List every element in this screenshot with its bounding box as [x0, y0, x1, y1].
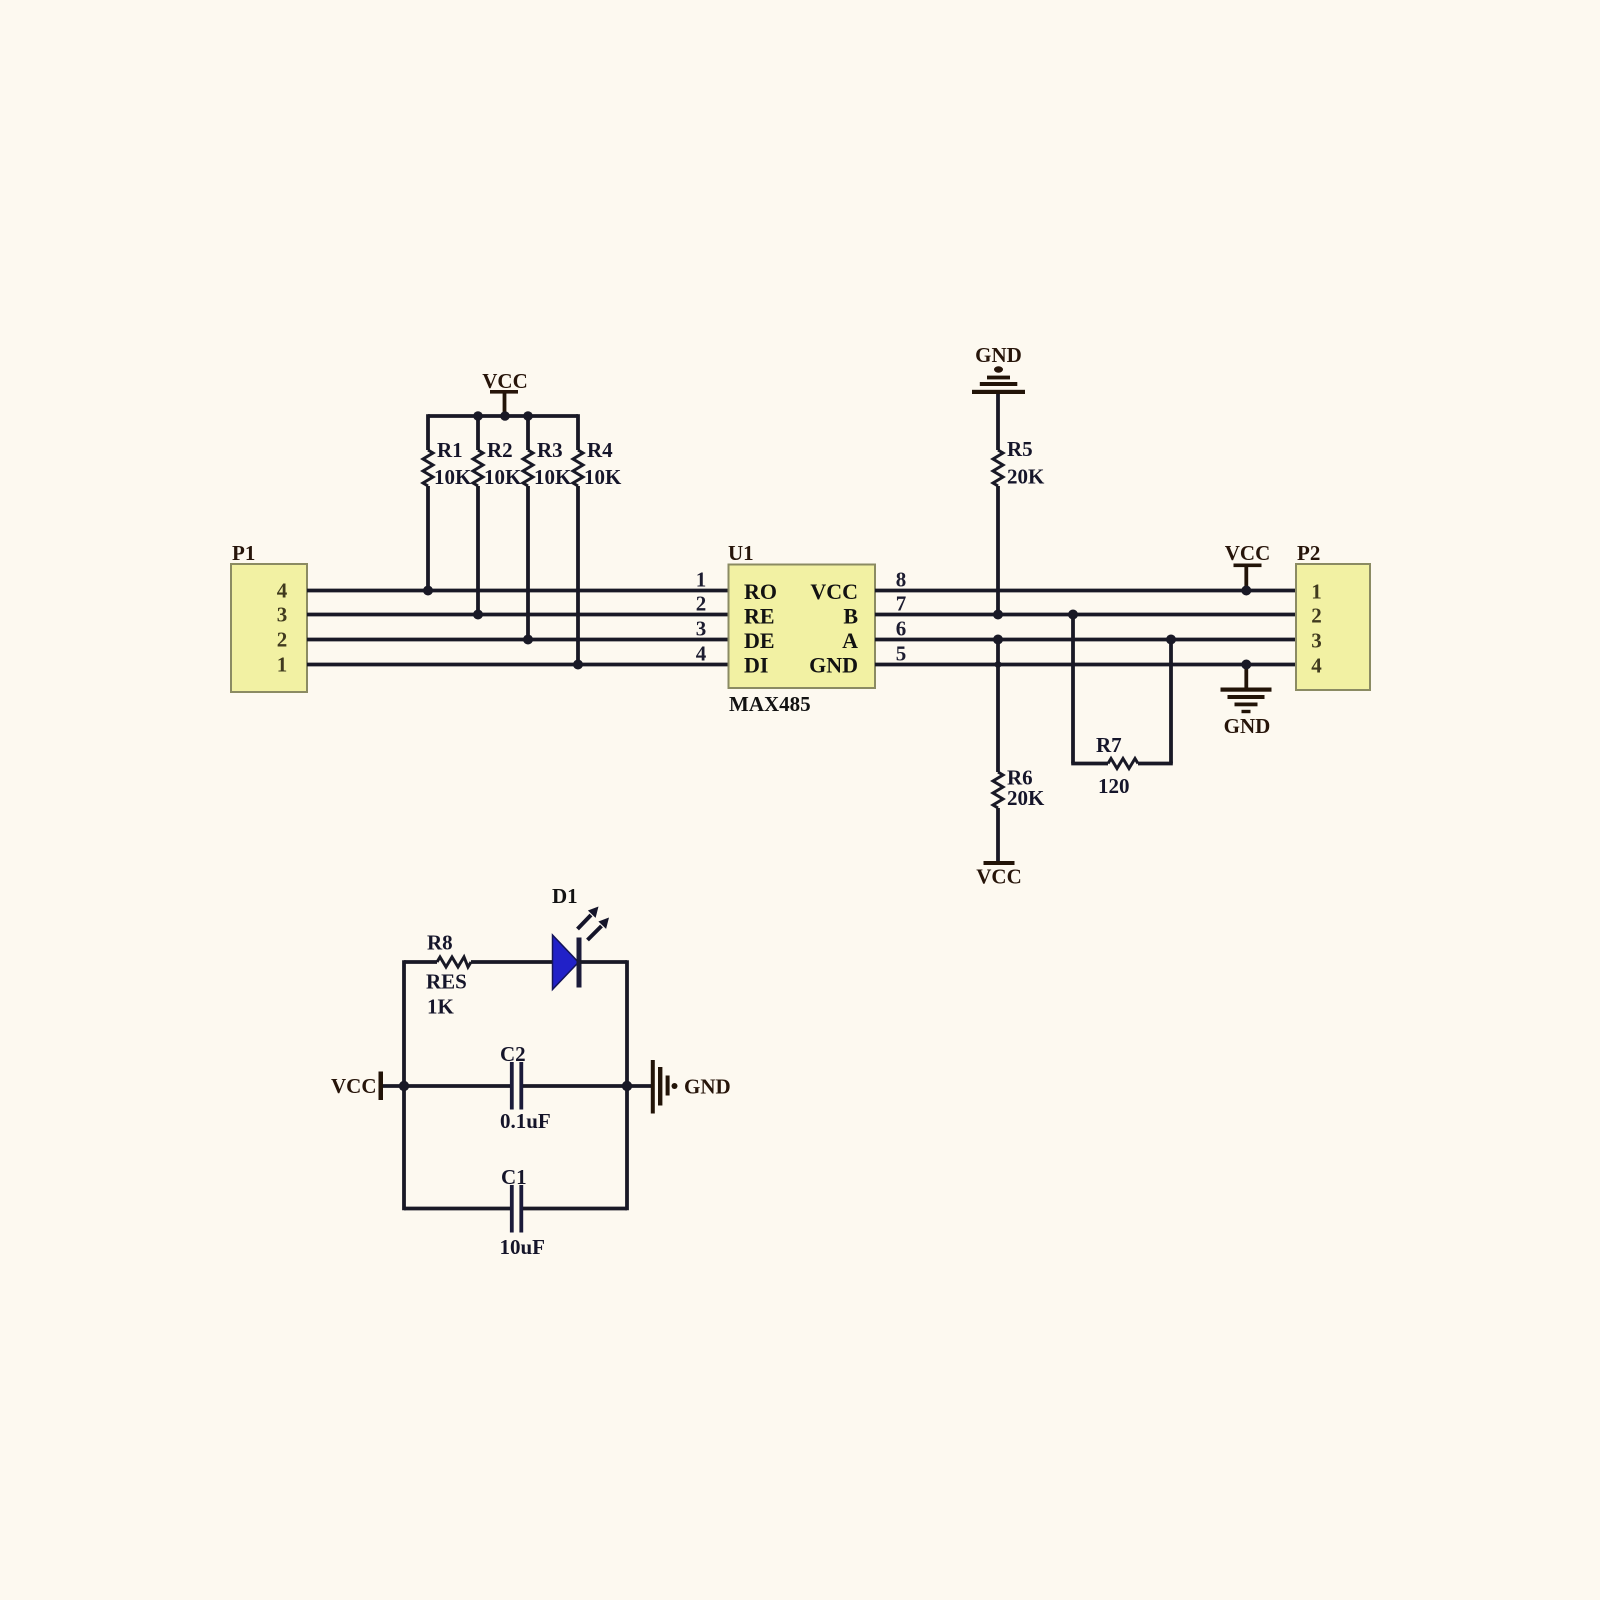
wire top branch left segment — [404, 960, 437, 964]
svg-text:P1: P1 — [232, 541, 255, 565]
resistor R8 RES 1K — [426, 931, 471, 1019]
svg-text:A: A — [842, 628, 858, 653]
wire P1 pin3 to U1 RE — [307, 613, 729, 617]
svg-text:2: 2 — [1311, 604, 1322, 628]
svg-text:R1: R1 — [437, 438, 463, 462]
op-amp / IC U1 MAX485 — [728, 541, 875, 716]
wire U1 GND (pin5) to P2 pin4, net GND — [875, 663, 1296, 667]
svg-text:GND: GND — [975, 343, 1022, 367]
svg-text:RES: RES — [426, 970, 467, 994]
svg-text:R5: R5 — [1007, 437, 1033, 461]
junction dot R5 on net B — [993, 610, 1003, 620]
svg-text:10uF: 10uF — [500, 1235, 546, 1259]
svg-text:10K: 10K — [434, 465, 472, 489]
resistor R6 20K (A net down to VCC) — [993, 640, 1045, 862]
svg-text:GND: GND — [1224, 714, 1271, 738]
svg-text:1: 1 — [1311, 580, 1322, 604]
wire right rail (bottom block) — [625, 960, 629, 1210]
svg-text:2: 2 — [696, 592, 707, 616]
svg-text:DE: DE — [744, 628, 775, 653]
svg-text:120: 120 — [1098, 774, 1130, 798]
svg-text:U1: U1 — [728, 541, 754, 565]
ground symbol GND (right of C2) — [653, 1060, 731, 1114]
junction dot GND stub on net GND — [1241, 660, 1251, 670]
junction dot VCC rail at R3 — [523, 411, 533, 421]
junction dot R2 on pin3 wire — [473, 610, 483, 620]
svg-text:3: 3 — [277, 603, 288, 627]
LED D1 — [552, 884, 609, 990]
junction dot R6 line crossing net GND — [995, 661, 1002, 668]
wire top branch right segment — [580, 960, 627, 964]
svg-text:DI: DI — [744, 653, 768, 678]
svg-text:4: 4 — [1311, 654, 1322, 678]
svg-text:RO: RO — [744, 579, 777, 604]
svg-text:D1: D1 — [552, 884, 578, 908]
svg-text:4: 4 — [277, 579, 288, 603]
power symbol VCC (left of C2) — [331, 1072, 383, 1101]
svg-text:2: 2 — [277, 628, 288, 652]
wire middle branch left segment — [383, 1084, 510, 1088]
svg-text:10K: 10K — [584, 465, 622, 489]
resistor R2 10K — [473, 416, 522, 615]
svg-text:GND: GND — [809, 653, 858, 678]
svg-text:6: 6 — [896, 617, 907, 641]
junction dot R4 on pin1 wire — [573, 660, 583, 670]
capacitor C2 0.1uF — [500, 1042, 551, 1133]
junction dot R7 right on net A — [1166, 635, 1176, 645]
svg-text:RE: RE — [744, 604, 775, 629]
svg-text:VCC: VCC — [331, 1074, 377, 1098]
wire P1 pin1 to U1 DI — [307, 663, 729, 667]
power symbol VCC (top, above R1-R4 rail) — [482, 369, 528, 416]
wire P1 pin2 to U1 DE — [307, 638, 729, 642]
svg-text:20K: 20K — [1007, 786, 1045, 810]
svg-text:R2: R2 — [487, 438, 513, 462]
junction dot VCC stub on net VCC — [1241, 586, 1251, 596]
junction dot R3 on pin2 wire — [523, 635, 533, 645]
svg-text:1: 1 — [696, 568, 707, 592]
svg-text:VCC: VCC — [1225, 541, 1271, 565]
svg-text:R7: R7 — [1096, 733, 1122, 757]
svg-text:VCC: VCC — [976, 865, 1022, 889]
wire P1 pin4 to U1 RO — [307, 589, 729, 593]
wire U1 A (pin6) to P2 pin3, net A — [875, 638, 1296, 642]
svg-text:GND: GND — [684, 1075, 731, 1099]
ground symbol GND (below P2 pin4) — [1221, 665, 1272, 739]
svg-text:R3: R3 — [537, 438, 563, 462]
connector P1 — [231, 541, 307, 692]
svg-text:VCC: VCC — [810, 579, 858, 604]
junction dot middle branch right rail — [622, 1081, 632, 1091]
wire bottom branch right segment — [523, 1207, 627, 1211]
junction dot R7 left on net B — [1068, 610, 1078, 620]
svg-text:MAX485: MAX485 — [729, 692, 811, 716]
ground symbol GND (top, above R5) — [972, 343, 1025, 394]
power symbol VCC (above P2 pin1) — [1225, 541, 1271, 591]
svg-text:1: 1 — [277, 653, 288, 677]
svg-text:P2: P2 — [1297, 541, 1320, 565]
junction dot VCC rail at R2 — [473, 411, 483, 421]
wire GND symbol down to R5 — [996, 394, 1000, 450]
resistor R4 10K — [573, 414, 622, 664]
junction dot middle branch left rail — [399, 1081, 409, 1091]
svg-text:7: 7 — [896, 592, 907, 616]
svg-text:0.1uF: 0.1uF — [500, 1109, 551, 1133]
wire middle branch right segment — [523, 1084, 651, 1088]
svg-text:10K: 10K — [484, 465, 522, 489]
wire bottom branch left segment — [404, 1207, 510, 1211]
svg-text:3: 3 — [1311, 629, 1322, 653]
svg-text:20K: 20K — [1007, 465, 1045, 489]
junction dot R6 on net A — [993, 635, 1003, 645]
capacitor C1 10uF — [500, 1165, 546, 1259]
wire top branch middle segment — [471, 960, 553, 964]
svg-text:3: 3 — [696, 617, 707, 641]
svg-text:R8: R8 — [427, 931, 453, 955]
resistor R3 10K — [523, 416, 572, 640]
svg-text:4: 4 — [696, 642, 707, 666]
connector P2 — [1296, 541, 1370, 690]
power symbol VCC (bottom of R6) — [976, 861, 1022, 889]
svg-text:5: 5 — [896, 642, 907, 666]
resistor R7 120 (termination between B and A) — [1071, 615, 1173, 799]
svg-text:1K: 1K — [427, 995, 455, 1019]
svg-text:VCC: VCC — [482, 369, 528, 393]
wire VCC rail (horizontal) — [428, 414, 578, 418]
junction dot VCC rail at stub — [500, 411, 510, 421]
svg-text:B: B — [843, 604, 858, 629]
svg-text:R4: R4 — [587, 438, 613, 462]
svg-text:10K: 10K — [534, 465, 572, 489]
wire U1 B (pin7) to P2 pin2, net B — [875, 613, 1296, 617]
wire U1 VCC (pin8) to P2 pin1, net VCC — [875, 589, 1296, 593]
resistor R1 10K — [423, 414, 472, 590]
resistor R5 20K — [993, 437, 1045, 615]
svg-text:8: 8 — [896, 568, 907, 592]
junction dot R1 on pin4 wire — [423, 586, 433, 596]
wire left rail (bottom block) — [402, 960, 406, 1210]
